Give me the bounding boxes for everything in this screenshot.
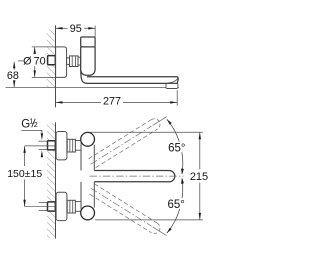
dimension 68 line: [13, 62, 15, 70]
dimension 150 arrows: [23, 146, 25, 153]
dimension 68 top extension dash: [18, 60, 24, 62]
body side lines (plan): [80, 145, 82, 171]
G 1/2 leader arrow: [41, 133, 43, 140]
dimension 215 arrows: [199, 132, 201, 139]
dimension 68 arrows: [13, 61, 15, 68]
dimension 95 arrows: [56, 27, 63, 29]
supply union square bottom (plan): [48, 202, 56, 211]
swing arc lower arrowheads: [181, 178, 184, 184]
svg-text:2: 2: [34, 122, 38, 129]
swing arc upper arrowheads: [167, 119, 172, 124]
wall hatch (plan view): [47, 123, 56, 140]
spout centerline: [90, 175, 184, 177]
svg-text:150±15: 150±15: [7, 168, 42, 180]
dimension O70 line: [34, 48, 36, 55]
G 1/2 leader line: [21, 130, 42, 133]
outlet bottom reference line: [6, 87, 180, 89]
supply centerline bottom: [25, 206, 56, 208]
faucet body (top view): [81, 47, 95, 75]
dimension 277 line: [56, 101, 102, 103]
supply union square behind wall (top view): [48, 56, 56, 65]
svg-text:277: 277: [103, 96, 121, 108]
svg-text:65°: 65°: [168, 199, 185, 211]
body collar: [78, 57, 81, 65]
swivel spout rotated down (dashed): [88, 183, 170, 240]
swivel spout rotated up (dashed): [88, 112, 170, 169]
wall hatch (top view): [47, 30, 56, 89]
dimension 277 arrows: [56, 101, 63, 103]
dimension O70 extension lines: [32, 46, 56, 48]
hex nut facets: [71, 56, 73, 67]
supply union square top (plan): [48, 141, 56, 150]
escutcheon bottom (plan): [56, 192, 67, 220]
svg-text:68: 68: [7, 70, 19, 82]
supply centerline top: [25, 145, 56, 147]
wall line (plan view): [55, 122, 57, 238]
dimension O70 arrows: [34, 47, 36, 54]
escutcheon flange (top view): [56, 47, 67, 78]
supply pipe top (behind wall): [39, 140, 48, 142]
supply pipe bottom (behind wall): [39, 201, 48, 203]
angle label upper 65: [167, 142, 187, 153]
spout elbow outer curve: [81, 66, 88, 83]
dimension 277 right extension line: [176, 90, 178, 105]
svg-text:95: 95: [70, 23, 82, 35]
dimension 150 line: [24, 146, 26, 166]
swing arc upper: [167, 119, 183, 174]
hex nut top (plan): [67, 139, 75, 152]
pivot collar top: [75, 141, 81, 151]
body pivot circle bottom: [81, 206, 95, 220]
svg-text:Ø 70: Ø 70: [23, 56, 46, 68]
swing arc lower: [167, 178, 183, 233]
dimension 95 right extension line: [94, 26, 96, 37]
svg-text:215: 215: [190, 171, 208, 183]
hex nut bottom (plan): [67, 200, 75, 213]
dimension 95 line: [56, 27, 68, 29]
aerator end curve inside spout: [167, 78, 178, 83]
G 1/2 lower counter-arrow: [41, 150, 43, 157]
dimension 215 extension lines: [90, 131, 203, 133]
dimension 215 line: [199, 132, 201, 169]
body pivot circle top: [81, 132, 95, 146]
angle label lower 65: [167, 198, 187, 209]
body top cap: [81, 37, 95, 47]
escutcheon top (plan): [56, 132, 67, 160]
aerator mouthpiece: [166, 84, 178, 89]
union collar: [67, 58, 70, 65]
hex nut (top view): [70, 56, 79, 67]
pivot collar bottom: [75, 202, 81, 212]
spout tube (top view): [87, 77, 178, 84]
wall line (top view): [55, 25, 57, 107]
svg-text:65°: 65°: [168, 142, 185, 154]
spout tube (plan): [94, 171, 175, 182]
